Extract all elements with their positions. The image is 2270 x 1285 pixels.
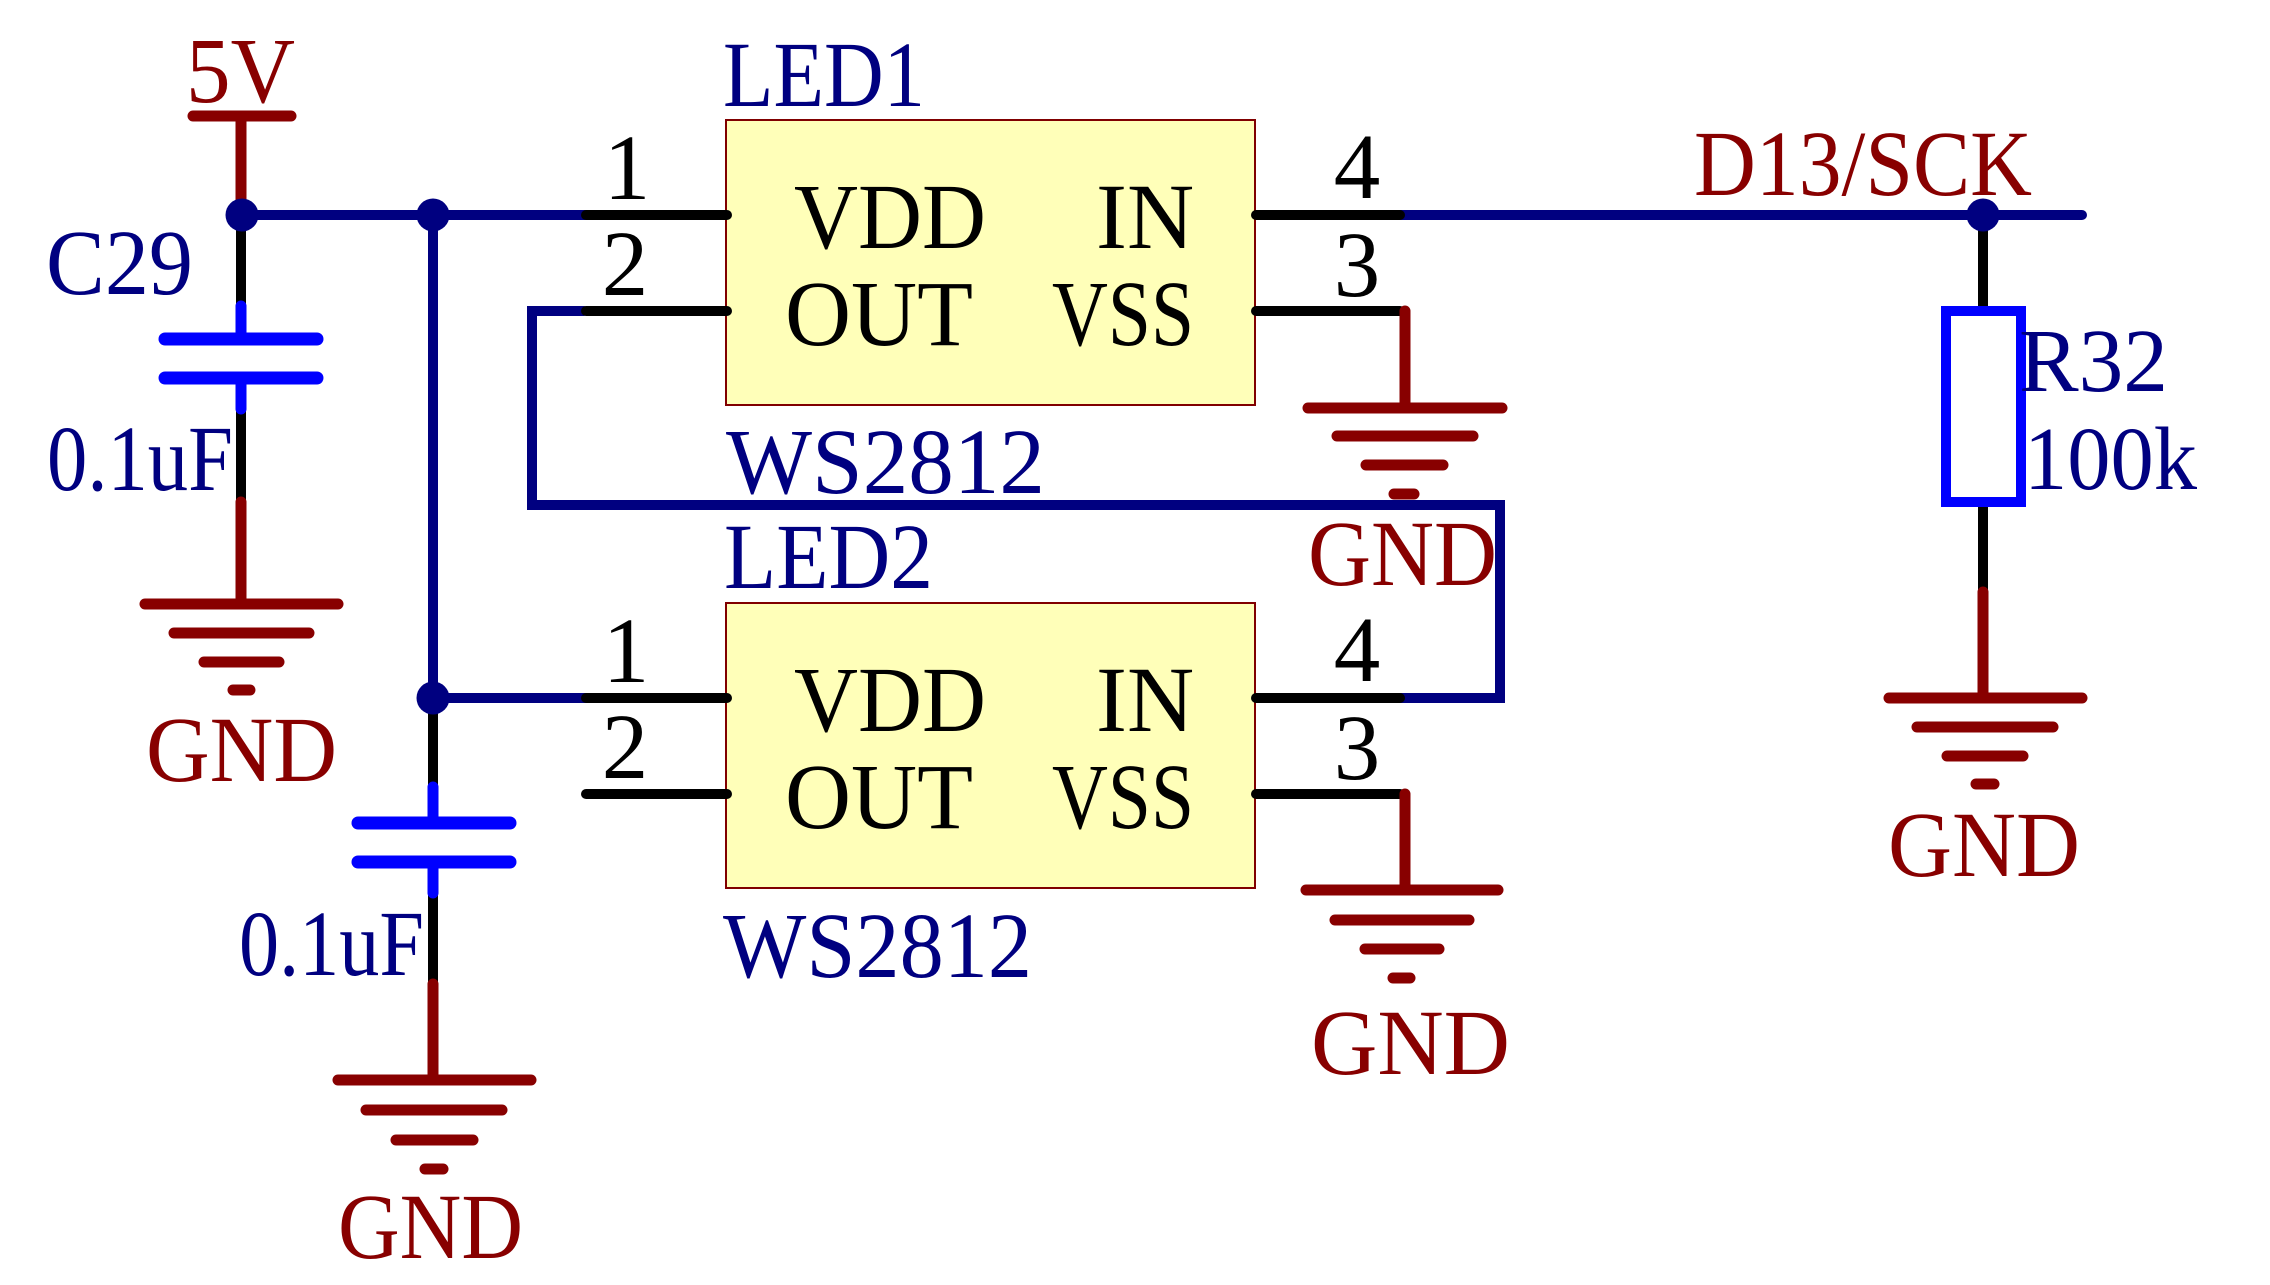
svg-text:5V: 5V [186, 20, 295, 123]
svg-text:GND: GND [338, 1176, 523, 1279]
svg-text:LED1: LED1 [723, 24, 925, 127]
svg-text:GND: GND [146, 699, 337, 802]
svg-text:0.1uF: 0.1uF [47, 408, 233, 511]
svg-text:OUT: OUT [785, 746, 973, 849]
svg-text:WS2812: WS2812 [723, 895, 1032, 998]
svg-text:IN: IN [1096, 166, 1194, 269]
svg-text:2: 2 [602, 213, 649, 316]
svg-text:LED2: LED2 [724, 506, 933, 609]
svg-text:D13/SCK: D13/SCK [1694, 113, 2032, 216]
svg-text:4: 4 [1334, 116, 1381, 219]
svg-text:VDD: VDD [794, 649, 986, 752]
svg-text:GND: GND [1311, 992, 1510, 1095]
svg-text:0.1uF: 0.1uF [239, 893, 424, 996]
svg-text:OUT: OUT [785, 263, 973, 366]
svg-text:VSS: VSS [1052, 263, 1194, 366]
svg-text:WS2812: WS2812 [726, 411, 1045, 514]
svg-text:VDD: VDD [794, 166, 986, 269]
svg-text:2: 2 [602, 696, 649, 799]
svg-text:C29: C29 [46, 212, 193, 315]
svg-text:GND: GND [1308, 503, 1497, 606]
svg-text:R32: R32 [2019, 312, 2168, 411]
svg-text:1: 1 [604, 117, 651, 220]
svg-text:1: 1 [603, 600, 650, 703]
svg-text:100k: 100k [2024, 410, 2197, 509]
svg-text:4: 4 [1334, 599, 1381, 702]
svg-text:IN: IN [1096, 649, 1194, 752]
svg-text:3: 3 [1334, 214, 1381, 317]
svg-text:VSS: VSS [1052, 746, 1194, 849]
svg-text:GND: GND [1888, 794, 2080, 897]
svg-text:3: 3 [1334, 697, 1381, 800]
